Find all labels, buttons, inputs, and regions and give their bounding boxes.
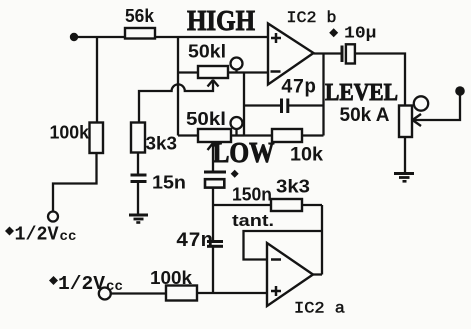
wire input to 56k [74,36,125,38]
svg-text:100k: 100k [50,123,90,143]
wire feedback node vertical [243,73,245,136]
potentiometer LEVEL 50kA [325,80,428,137]
svg-text:3k3: 3k3 [276,177,310,197]
wire terminal to 100k [111,292,166,294]
wire 100k to IC2a + input [197,292,267,294]
op-amp IC2a [267,243,345,318]
svg-text:IC2 a: IC2 a [294,300,345,318]
wire LOW pot right stub [231,134,244,136]
potentiometer HIGH 50k [188,42,244,87]
capacitor 150n tant [204,170,274,230]
capacitor 47n [176,230,223,253]
wire IC2a - input loop [244,231,323,260]
svg-text:1/2V: 1/2V [58,273,106,295]
resistor 100k (bias upper) [50,123,104,154]
svg-text:tant.: tant. [232,211,274,230]
svg-text:100k: 100k [150,268,193,288]
resistor 3k3 (treble) [131,123,177,154]
svg-text:10µ: 10µ [344,25,377,44]
ground (left) [129,215,148,223]
label +1/2Vcc lower [49,273,123,295]
label +1/2Vcc upper [5,224,77,246]
wire 3k3 to output vertical [302,204,322,206]
svg-text:3k3: 3k3 [146,134,178,154]
wire 56k to op-amp + input [155,36,268,38]
svg-text:47n: 47n [176,230,213,253]
op-amp IC2b [268,9,337,85]
terminal +1/2Vcc upper [48,212,58,222]
wire node to 3k3 feedback [213,204,271,206]
capacitor 47p [244,77,324,114]
wire HIGH wiper with hop over bus [139,80,213,124]
wire IC2b output [314,52,342,54]
svg-text:cc: cc [60,229,77,245]
resistor 10k [244,129,324,166]
wire bus down to pots [177,37,179,136]
potentiometer LOW 50k [186,109,243,150]
wire 100k to Vcc terminal [53,153,97,212]
svg-text:LOW: LOW [213,138,275,169]
wire bus to LOW pot left [178,134,198,136]
wire IC2b - input [244,71,268,73]
node output dot [455,86,465,96]
svg-text:50kl: 50kl [188,42,226,62]
svg-text:10k: 10k [290,145,323,166]
wire IC2a output vertical [321,205,323,275]
svg-text:56k: 56k [125,6,155,26]
svg-text:1/2V: 1/2V [15,224,60,246]
svg-text:15n: 15n [152,173,186,193]
wire 10u to LEVEL pot [355,54,405,106]
capacitor 10u [329,25,376,64]
wire LOW wiper down [212,143,214,172]
svg-text:IC2 b: IC2 b [287,9,337,27]
terminal +1/2Vcc lower [99,288,111,300]
wire IC2a output [313,273,322,275]
wire input node down to 100k [96,37,98,123]
resistor 56k [125,6,155,39]
wire 3k3 to 15n [137,153,139,175]
svg-text:LEVEL: LEVEL [325,80,398,106]
node input dot [70,33,78,41]
wiper arrow LEVEL [413,114,422,126]
svg-text:50k A: 50k A [340,105,390,126]
wire 150n down through node [212,188,214,241]
wire LEVEL pot to ground [404,137,406,174]
resistor 3k3 (bass feedback) [271,177,310,212]
capacitor 15n [131,173,187,193]
resistor 100k (bias lower) [150,268,197,301]
svg-text:50kl: 50kl [186,109,226,129]
wire output to LEVEL wiper [413,95,460,120]
wire 15n to ground [137,182,139,215]
wire bus to HIGH pot left [178,71,198,73]
ground (right) [394,174,414,182]
wire 47n to bottom rail [212,246,214,293]
svg-text:HIGH: HIGH [187,6,255,37]
svg-text:47p: 47p [281,77,316,100]
svg-text:150n: 150n [232,185,272,205]
wire IC2b feedback vertical [322,54,324,136]
